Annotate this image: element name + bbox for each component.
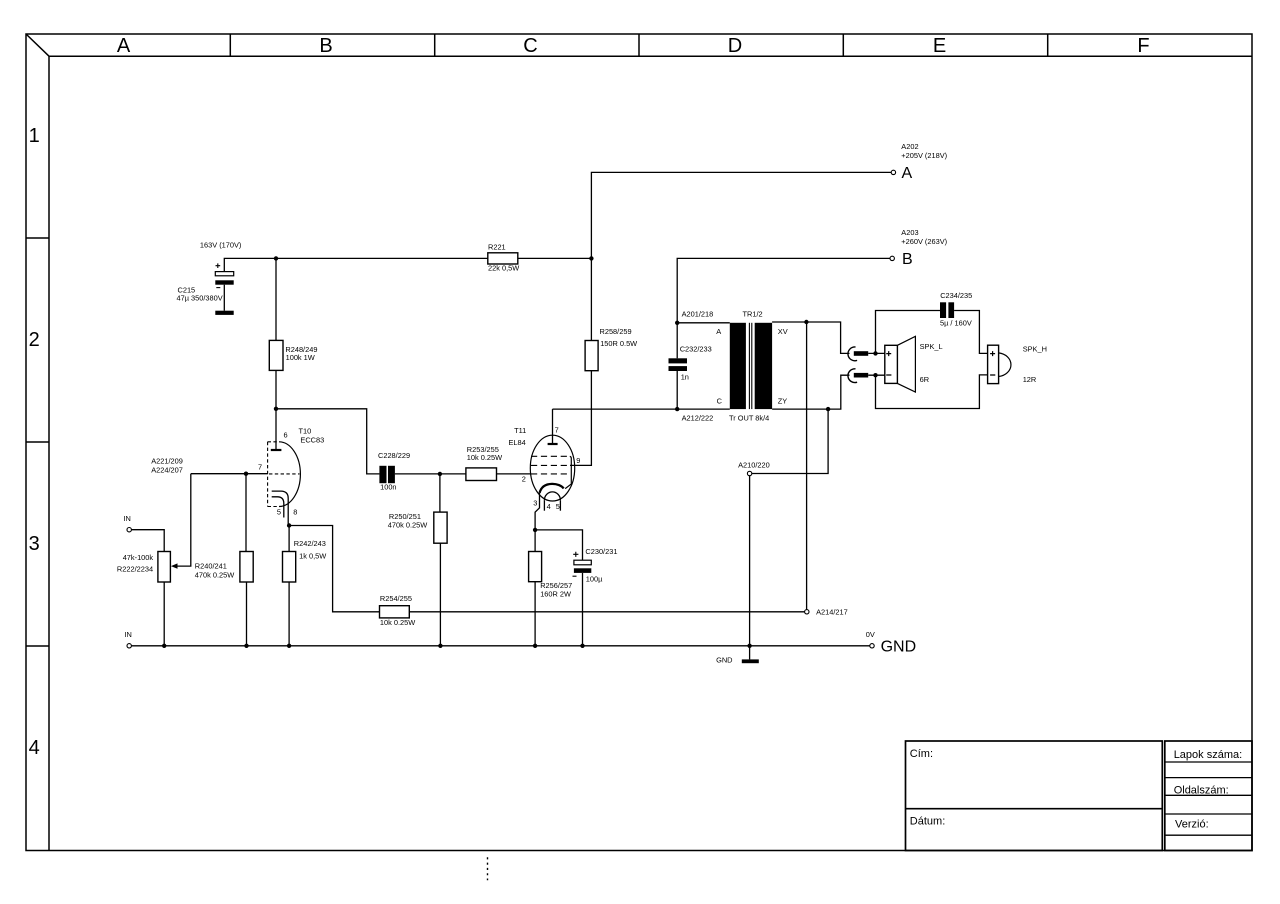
svg-text:2: 2 xyxy=(29,329,40,351)
wire SPK_H minus loop xyxy=(876,375,988,409)
svg-text:R222/2234: R222/2234 xyxy=(117,565,153,574)
junction rail R256 xyxy=(533,644,537,648)
junction SPK_L minus xyxy=(873,373,877,377)
svg-text:3: 3 xyxy=(29,533,40,555)
svg-text:GND: GND xyxy=(716,656,732,665)
svg-text:+260V (263V): +260V (263V) xyxy=(901,237,947,246)
wire A210 xyxy=(752,409,828,473)
wire pin9 to R258 xyxy=(570,371,591,466)
svg-text:B: B xyxy=(319,35,332,57)
svg-text:ZY: ZY xyxy=(778,397,788,406)
svg-text:470k 0.25W: 470k 0.25W xyxy=(195,570,234,579)
svg-text:Dátum:: Dátum: xyxy=(910,815,945,827)
svg-text:Cím:: Cím: xyxy=(910,748,933,760)
wire anode to C228 xyxy=(276,409,379,474)
svg-text:5: 5 xyxy=(277,508,281,517)
wire anode EL84 to transformer xyxy=(553,408,730,410)
svg-text:A214/217: A214/217 xyxy=(816,607,848,616)
resistor R240/241 xyxy=(195,474,253,646)
transformer TR1/2 xyxy=(716,309,787,422)
svg-text:1k 0,5W: 1k 0,5W xyxy=(299,552,326,561)
svg-text:XV: XV xyxy=(778,327,788,336)
svg-text:A: A xyxy=(716,327,721,336)
wire C234 to SPK_H xyxy=(954,311,988,354)
wire R254 to A214/217 xyxy=(409,611,804,613)
svg-text:R258/259: R258/259 xyxy=(600,327,632,336)
svg-text:A212/222: A212/222 xyxy=(682,414,714,423)
svg-text:T11: T11 xyxy=(514,426,526,435)
junction C228/R250 xyxy=(438,472,442,476)
svg-text:C234/235: C234/235 xyxy=(940,291,972,300)
junction grid/R240 xyxy=(244,472,248,476)
svg-text:B: B xyxy=(902,251,913,268)
svg-text:100n: 100n xyxy=(380,482,396,491)
junction rail C230 xyxy=(580,644,584,648)
junction rail R250 xyxy=(438,644,442,648)
title block xyxy=(906,741,1253,851)
svg-text:A203: A203 xyxy=(901,228,918,237)
resistor R248/249 xyxy=(269,258,317,449)
svg-text:4: 4 xyxy=(547,502,551,511)
wire B to transformer xyxy=(677,258,890,322)
resistor R258/259 xyxy=(585,258,637,370)
svg-text:R254/255: R254/255 xyxy=(380,594,412,603)
svg-text:C228/229: C228/229 xyxy=(378,451,410,460)
svg-text:0V: 0V xyxy=(866,630,875,639)
svg-text:R240/241: R240/241 xyxy=(195,561,227,570)
wire grid T10 xyxy=(191,473,268,475)
terminal B xyxy=(890,228,947,268)
capacitor C230/231 xyxy=(573,547,618,646)
wire to terminal A xyxy=(591,172,891,258)
potentiometer R222/2234 xyxy=(117,474,191,646)
svg-text:47k-100k: 47k-100k xyxy=(123,553,154,562)
svg-text:R242/243: R242/243 xyxy=(294,539,326,548)
resistor R242/243 xyxy=(283,526,327,646)
wire XV to connector xyxy=(772,322,849,353)
svg-text:Oldalszám:: Oldalszám: xyxy=(1174,785,1229,797)
svg-text:A221/209: A221/209 xyxy=(151,457,183,466)
tube T11 EL84 xyxy=(509,409,581,530)
resistor R254/255 xyxy=(380,594,416,627)
capacitor C228/229 xyxy=(378,451,410,491)
svg-text:+205V (218V): +205V (218V) xyxy=(901,151,947,160)
svg-text:Verzió:: Verzió: xyxy=(1175,819,1209,831)
svg-text:SPK_H: SPK_H xyxy=(1023,345,1047,354)
capacitor C215 xyxy=(177,263,234,315)
terminal GND 0V xyxy=(866,630,916,656)
junction cathode EL84 xyxy=(533,528,537,532)
node A201/218 xyxy=(675,309,730,325)
wire to C234 xyxy=(876,311,941,354)
svg-text:C232/233: C232/233 xyxy=(680,344,712,353)
node 163V rail xyxy=(117,142,1047,665)
connector jack lower xyxy=(848,369,885,383)
junction rail R240 xyxy=(244,644,248,648)
resistor R221 xyxy=(488,242,519,272)
junction XV/A214 xyxy=(804,320,808,324)
svg-text:5: 5 xyxy=(556,502,560,511)
junction cathode T10 xyxy=(287,523,291,527)
svg-text:7: 7 xyxy=(555,426,559,435)
svg-text:160R 2W: 160R 2W xyxy=(540,589,571,598)
junction R248/anode xyxy=(274,407,278,411)
svg-text:C230/231: C230/231 xyxy=(585,547,617,556)
svg-text:9: 9 xyxy=(576,456,580,465)
svg-text:GND: GND xyxy=(881,638,917,655)
svg-text:5µ / 160V: 5µ / 160V xyxy=(940,318,972,327)
resistor R253/255 xyxy=(466,445,531,480)
svg-text:A224/207: A224/207 xyxy=(151,465,183,474)
wire 163V rail xyxy=(224,258,488,271)
svg-text:R221: R221 xyxy=(488,242,506,251)
junction C215/R248 xyxy=(274,256,278,260)
capacitor C232/233 xyxy=(669,323,712,409)
svg-text:47µ 350/380V: 47µ 350/380V xyxy=(177,294,223,303)
svg-text:150R 0.5W: 150R 0.5W xyxy=(600,339,637,348)
terminal A214/217 xyxy=(805,607,848,616)
terminal IN top xyxy=(123,514,164,552)
junction ZY/A210 xyxy=(826,407,830,411)
wire cathode to R254 xyxy=(289,526,379,612)
wire cathode to C230 xyxy=(535,530,582,560)
svg-text:Lapok száma:: Lapok száma: xyxy=(1174,749,1242,761)
svg-text:12R: 12R xyxy=(1023,375,1037,384)
svg-text:100µ: 100µ xyxy=(586,575,603,584)
terminal A xyxy=(891,142,947,182)
svg-text:1: 1 xyxy=(29,125,40,147)
wire A214 vertical xyxy=(806,322,808,610)
terminal IN bottom xyxy=(124,630,131,648)
svg-text:F: F xyxy=(1137,35,1149,57)
tube T10 ECC83 xyxy=(258,427,324,526)
svg-text:8: 8 xyxy=(293,508,297,517)
svg-text:3: 3 xyxy=(533,498,537,507)
svg-text:163V (170V): 163V (170V) xyxy=(200,241,242,250)
svg-text:D: D xyxy=(728,35,742,57)
svg-text:A202: A202 xyxy=(901,142,918,151)
resistor R250/251 xyxy=(388,474,447,646)
svg-text:A210/220: A210/220 xyxy=(738,461,770,470)
ground symbol xyxy=(716,646,759,665)
junction A212/222 xyxy=(675,407,679,411)
resistor R256/257 xyxy=(529,530,573,646)
connector jack upper xyxy=(848,347,885,361)
junction rail R242 xyxy=(287,644,291,648)
svg-text:1n: 1n xyxy=(681,373,689,382)
wire R221 to junction xyxy=(518,257,592,259)
svg-text:6: 6 xyxy=(284,430,288,439)
terminal A210/220 xyxy=(738,461,770,646)
svg-text:ECC83: ECC83 xyxy=(300,436,324,445)
wire C228 to junction xyxy=(395,473,466,475)
svg-text:Tr OUT 8k/4: Tr OUT 8k/4 xyxy=(729,414,769,423)
svg-text:A: A xyxy=(117,35,131,57)
svg-text:EL84: EL84 xyxy=(509,438,526,447)
wire GND rail xyxy=(132,645,870,647)
svg-text:2: 2 xyxy=(522,475,526,484)
junction SPK_L plus xyxy=(873,351,877,355)
wire ZY to connector xyxy=(772,375,849,409)
svg-text:TR1/2: TR1/2 xyxy=(743,309,763,318)
svg-text:SPK_L: SPK_L xyxy=(920,342,943,351)
svg-text:E: E xyxy=(933,35,946,57)
svg-text:10k 0.25W: 10k 0.25W xyxy=(467,453,502,462)
junction R221/A/R258 xyxy=(589,256,593,260)
svg-text:6R: 6R xyxy=(920,375,929,384)
svg-text:10k 0.25W: 10k 0.25W xyxy=(380,618,415,627)
svg-text:C: C xyxy=(523,35,537,57)
svg-text:22k 0,5W: 22k 0,5W xyxy=(488,263,519,272)
junction rail A210 xyxy=(747,644,751,648)
capacitor C234/235 xyxy=(940,291,972,328)
speaker SPK_H xyxy=(988,345,1047,385)
svg-text:4: 4 xyxy=(29,737,40,759)
svg-text:IN: IN xyxy=(124,630,131,639)
svg-text:7: 7 xyxy=(258,463,262,472)
svg-text:100k 1W: 100k 1W xyxy=(286,353,315,362)
svg-text:A: A xyxy=(902,165,913,182)
svg-text:470k 0.25W: 470k 0.25W xyxy=(388,520,427,529)
svg-text:IN: IN xyxy=(123,514,130,523)
speaker SPK_L xyxy=(885,336,943,392)
svg-text:A201/218: A201/218 xyxy=(682,309,714,318)
fold mark xyxy=(487,857,489,880)
svg-text:C: C xyxy=(717,397,723,406)
junction rail pot xyxy=(162,644,166,648)
svg-text:T10: T10 xyxy=(299,427,312,436)
